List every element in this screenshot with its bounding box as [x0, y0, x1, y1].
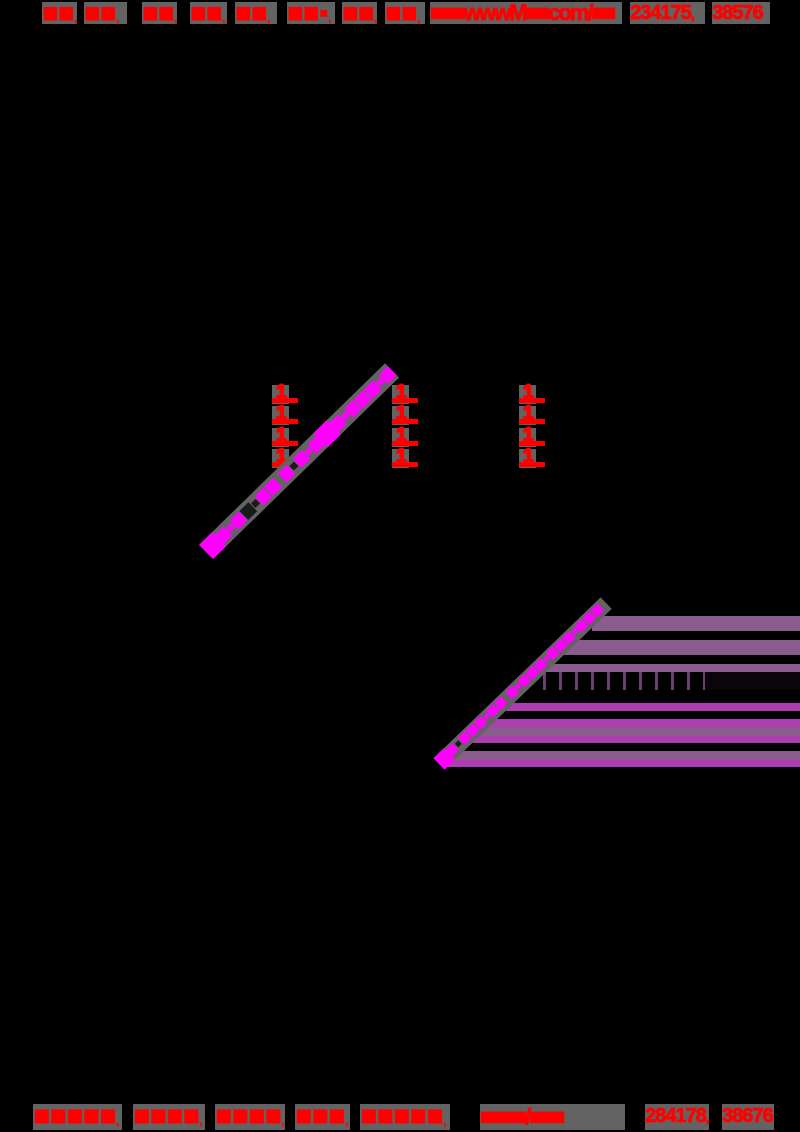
top watermark row — [42, 2, 77, 24]
col2 — [392, 385, 409, 404]
selection stripes right of diagonal 2 (behind band) — [592, 616, 800, 631]
bottom watermark row — [33, 1104, 122, 1130]
col1 — [272, 385, 289, 404]
diagonal watermark 2 — [433, 597, 611, 769]
col3 — [519, 385, 536, 404]
diagonal watermark 1 — [199, 363, 399, 559]
